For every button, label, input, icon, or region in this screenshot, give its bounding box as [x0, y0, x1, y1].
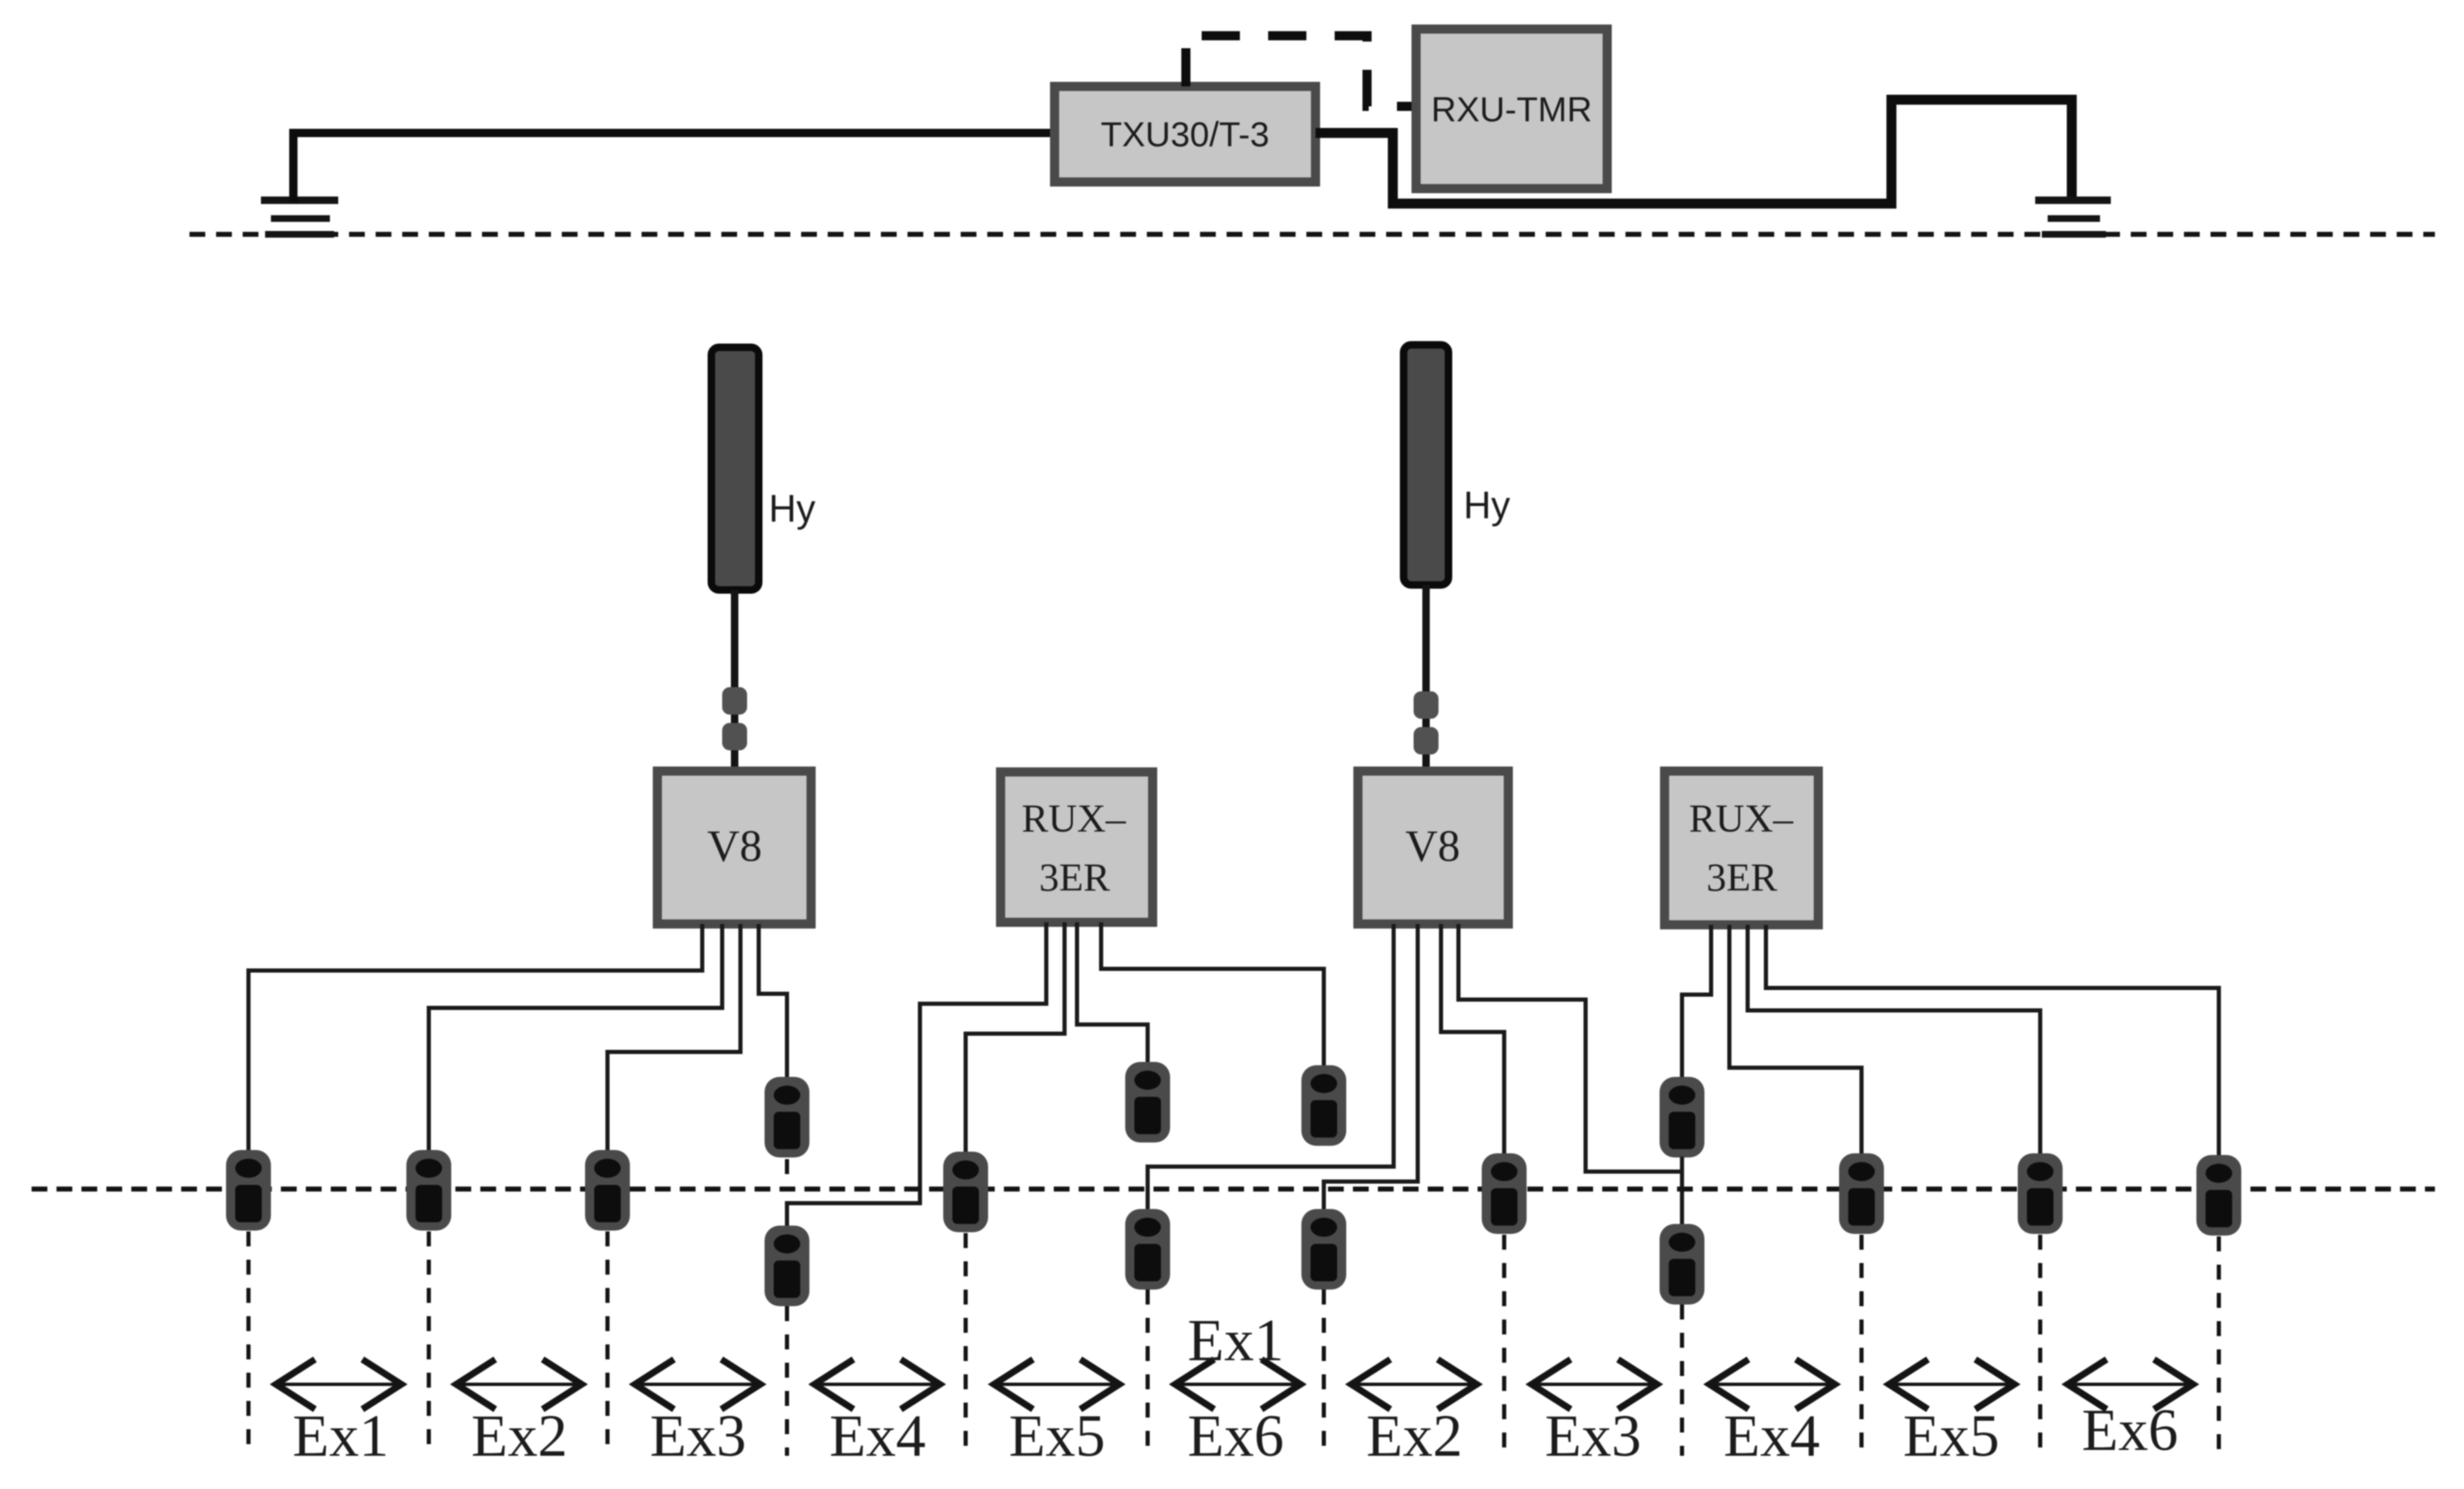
electrode 12	[2196, 1155, 2241, 1236]
cable connector (right, lower)	[1414, 727, 1439, 754]
receiver V8 (right)	[1358, 771, 1508, 924]
electrode 9 lower	[1660, 1224, 1704, 1305]
wire (Hy to V8 right)	[1423, 585, 1430, 771]
svg-text:RUX–: RUX–	[1021, 797, 1126, 841]
station dashed line 1	[247, 1231, 251, 1456]
wire (V8 left ch3 to electrode 3)	[607, 924, 740, 1153]
electrode 4 upper	[765, 1077, 809, 1157]
svg-text:V8: V8	[1405, 821, 1460, 871]
span arrow Ex3 (2nd spread)	[1532, 1359, 1657, 1409]
span arrow Ex2	[456, 1359, 582, 1409]
svg-text:Ex2: Ex2	[471, 1403, 568, 1469]
wire (V8 left ch2 to electrode 2)	[429, 924, 722, 1153]
svg-text:Ex5: Ex5	[1903, 1403, 1999, 1469]
electrode 3	[585, 1150, 630, 1231]
wire (left transmitter cable: ground up and right to TXU)	[293, 133, 1055, 202]
receiver RXU-TMR	[1416, 29, 1607, 189]
wire (V8 right ch2 to lower electrode 7)	[1324, 924, 1418, 1211]
magnetic sensor coil Hy (left)	[711, 347, 759, 590]
station dashed line 10	[1860, 1235, 1864, 1456]
electrode 11	[2018, 1153, 2063, 1234]
wire (V8 right ch1 to lower electrode 6)	[1148, 924, 1394, 1211]
station dashed line 12	[2217, 1236, 2221, 1456]
station dashed line 8	[1502, 1235, 1507, 1456]
svg-text:Hy: Hy	[769, 487, 815, 530]
span arrow Ex5 (2nd spread)	[1889, 1359, 2014, 1409]
span arrow Ex6 (2nd spread)	[2068, 1359, 2193, 1409]
span arrow Ex5	[994, 1359, 1119, 1409]
dashed synchronization link TXU to RXU	[1186, 36, 1414, 106]
svg-text:3ER: 3ER	[1706, 856, 1777, 900]
cable connector (right, upper)	[1414, 691, 1439, 719]
svg-text:Ex6: Ex6	[2082, 1397, 2178, 1463]
span arrow Ex1	[276, 1359, 401, 1409]
transmitter TXU30/T-3	[1055, 86, 1316, 182]
electrode 4 lower	[765, 1226, 809, 1306]
wire (RUX-3ER left ch1 to lower electrode 4)	[787, 922, 1046, 1228]
wire (V8 left ch4 to upper electrode 4)	[759, 924, 787, 1080]
svg-text:Ex2: Ex2	[1366, 1403, 1463, 1469]
svg-text:RUX–: RUX–	[1689, 797, 1793, 841]
span arrow Ex2 (2nd spread)	[1351, 1359, 1477, 1409]
electrode 6 lower	[1125, 1209, 1170, 1290]
span arrow Ex4	[814, 1359, 940, 1409]
svg-text:Ex1: Ex1	[1188, 1307, 1284, 1374]
electrode 2	[406, 1150, 451, 1231]
magnetic sensor coil Hy (right)	[1404, 345, 1448, 585]
wire stub (upper to lower electrode 9)	[1680, 1157, 1684, 1173]
svg-text:Ex3: Ex3	[650, 1403, 746, 1469]
cable connector (left, upper)	[722, 687, 747, 715]
span arrow Ex3	[635, 1359, 760, 1409]
svg-text:Hy: Hy	[1463, 484, 1510, 527]
electrode 8	[1482, 1153, 1527, 1234]
svg-text:Ex3: Ex3	[1545, 1403, 1641, 1469]
earth surface dashed line (top)	[189, 232, 2435, 237]
wire (RUX-3ER right ch3 to electrode 11)	[1748, 925, 2040, 1157]
station dashed line 3	[606, 1231, 610, 1456]
svg-text:Ex6: Ex6	[1188, 1403, 1284, 1469]
svg-text:Ex4: Ex4	[829, 1403, 926, 1469]
station dashed line 2	[427, 1231, 431, 1456]
wire (RUX-3ER right ch2 to electrode 10)	[1729, 925, 1862, 1157]
wire (RUX-3ER right ch4 to electrode 12)	[1766, 925, 2219, 1158]
station dashed line 5	[964, 1233, 968, 1456]
wire (RUX-3ER left ch2 to electrode 5)	[966, 922, 1065, 1155]
electrode 7 lower	[1301, 1209, 1346, 1290]
wire (RUX-3ER left ch3 to upper electrode 6)	[1077, 922, 1148, 1064]
earth surface dashed line (bottom)	[32, 1187, 2435, 1192]
wire (V8 left ch1 to electrode 1)	[248, 924, 702, 1153]
station dashed line 9	[1680, 1305, 1684, 1456]
svg-text:V8: V8	[707, 821, 762, 871]
wire (Hy to V8 left)	[731, 590, 739, 771]
svg-text:Ex5: Ex5	[1009, 1403, 1105, 1469]
svg-text:TXU30/T-3: TXU30/T-3	[1100, 115, 1269, 154]
wire (V8 right ch3 to electrode 8)	[1441, 924, 1504, 1157]
receiver RUX-3ER (right)	[1665, 771, 1818, 925]
cable connector (left, lower)	[722, 723, 747, 750]
station dashed line 11	[2039, 1235, 2043, 1456]
span arrow Ex4 (2nd spread)	[1709, 1359, 1835, 1409]
electrode 6 upper	[1125, 1062, 1170, 1143]
receiver RUX-3ER (left)	[1001, 772, 1153, 922]
svg-text:Ex4: Ex4	[1724, 1403, 1820, 1469]
wire (V8 right ch4 to lower electrode 9)	[1458, 924, 1682, 1226]
ground electrode symbol right	[2035, 200, 2111, 234]
station dashed line 4	[785, 1306, 789, 1456]
station dashed line 6	[1146, 1290, 1150, 1456]
receiver V8 (left)	[657, 771, 811, 924]
electrode 7 upper	[1301, 1065, 1346, 1146]
station dash stub at electrode 4	[785, 1159, 789, 1174]
electrode 10	[1839, 1153, 1884, 1234]
wire (TXU output to right ground electrode)	[1316, 100, 2072, 204]
svg-text:Ex1: Ex1	[293, 1403, 389, 1469]
wire (RUX-3ER left ch4 to upper electrode 7)	[1101, 922, 1324, 1068]
station dashed line 7	[1322, 1290, 1326, 1456]
svg-text:3ER: 3ER	[1039, 856, 1109, 900]
wire (RUX-3ER right ch1 to upper electrode 9)	[1682, 925, 1711, 1079]
span arrow Ex6/Ex1	[1175, 1359, 1301, 1409]
ground electrode symbol left	[261, 200, 338, 234]
electrode 1	[226, 1150, 271, 1231]
svg-text:RXU-TMR: RXU-TMR	[1431, 90, 1592, 129]
electrode 5	[943, 1152, 988, 1232]
electrode 9 upper	[1660, 1077, 1704, 1157]
